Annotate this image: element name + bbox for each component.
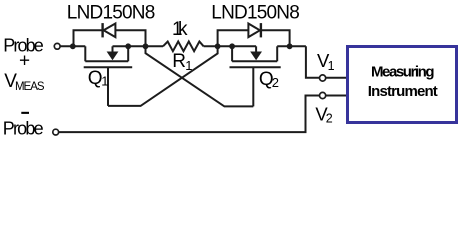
transistor Q2 channel bar — [232, 60, 277, 62]
transistor Q2 body stem — [255, 46, 257, 52]
label Measuring Instrument — [368, 63, 438, 100]
transistor Q1 source stub — [84, 46, 86, 61]
wire: diode D1 loop — [74, 30, 103, 46]
svg-text:LND150N8: LND150N8 — [211, 3, 299, 24]
svg-text:R: R — [172, 51, 186, 72]
junction: V1 node — [287, 43, 293, 49]
wire: R1 right lead to Q2 body stem — [204, 45, 257, 47]
svg-text:2: 2 — [272, 75, 279, 90]
wire: diode D2 loop — [218, 30, 249, 46]
transistor Q1 gate bar — [84, 66, 133, 68]
junction: node B — [215, 43, 221, 49]
svg-text:Instrument: Instrument — [368, 83, 438, 100]
terminal: probe - — [53, 129, 59, 135]
transistor Q1 drain stub — [127, 46, 129, 61]
wire: V1 vertical drop and lead into instrument — [306, 46, 347, 78]
svg-text:2: 2 — [326, 111, 333, 125]
svg-text:Q: Q — [88, 68, 103, 89]
svg-text:Probe: Probe — [3, 119, 44, 139]
wire: Q2 drain stub to V1 corner — [277, 45, 306, 47]
resistor R1 zigzag — [163, 42, 204, 52]
svg-text:MEAS: MEAS — [15, 81, 45, 93]
wire: Q1 body stem corner to R1 left lead — [113, 45, 164, 47]
transistor Q1 body arrow — [107, 52, 119, 61]
transistor Q1 channel bar — [85, 60, 128, 62]
terminal: probe + — [54, 43, 60, 49]
transistor Q2 gate bar — [230, 66, 281, 68]
wire: Q1 gate to node B cross link — [108, 46, 218, 106]
svg-text:Measuring: Measuring — [371, 63, 435, 80]
transistor Q2 body arrow — [250, 52, 262, 61]
svg-text:1: 1 — [328, 59, 335, 73]
svg-text:+: + — [19, 50, 30, 71]
diode D1 cathode bar — [101, 23, 103, 37]
wire: Q2 gate to node A cross link — [146, 46, 254, 106]
diode D1 triangle — [104, 24, 116, 38]
transistor Q1 body stem — [112, 46, 114, 52]
junction: probe node — [70, 43, 76, 49]
diode D2 triangle — [248, 24, 260, 38]
measuring instrument box — [348, 47, 457, 123]
transistor Q2 drain stub — [276, 46, 278, 61]
svg-text:1: 1 — [101, 74, 108, 89]
svg-text:LND150N8: LND150N8 — [67, 3, 156, 24]
diode D2 cathode bar — [260, 23, 262, 37]
label minus — [21, 112, 29, 114]
wire: bottom probe return — [59, 96, 347, 133]
svg-text:1: 1 — [185, 58, 192, 73]
transistor Q2 source stub — [231, 46, 233, 61]
terminal: V1 — [320, 75, 326, 81]
wire: top probe lead to Q1 source stub — [60, 45, 85, 47]
junction: Q1 drain node — [125, 43, 131, 49]
junction: Q2 source node — [229, 43, 235, 49]
terminal: V2 — [320, 92, 326, 98]
transistor Q1 gate lead — [107, 67, 109, 106]
svg-text:1k: 1k — [172, 19, 188, 40]
transistor Q2 gate lead — [252, 67, 254, 106]
junction: node A — [143, 43, 149, 49]
